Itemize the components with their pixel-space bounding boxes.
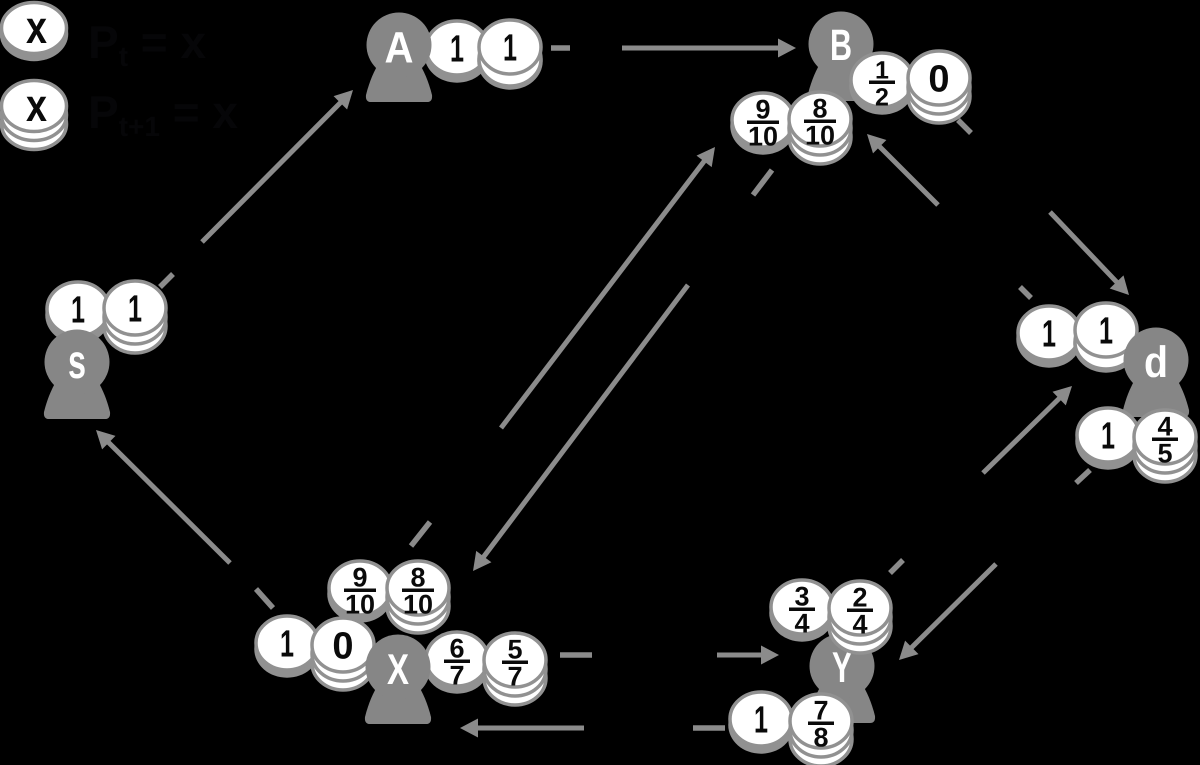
svg-text:8: 8 — [813, 723, 828, 753]
svg-text:9: 9 — [755, 95, 770, 125]
svg-text:1: 1 — [1099, 311, 1113, 353]
svg-text:1: 1 — [128, 289, 142, 331]
svg-text:0: 0 — [332, 626, 353, 668]
svg-text:0: 0 — [928, 59, 949, 101]
svg-text:s: s — [68, 336, 86, 389]
svg-text:x: x — [26, 79, 47, 131]
svg-text:5: 5 — [1157, 439, 1172, 469]
svg-text:X: X — [387, 646, 409, 694]
svg-text:5: 5 — [507, 635, 522, 665]
svg-text:4: 4 — [794, 609, 809, 639]
svg-text:1: 1 — [875, 57, 889, 85]
svg-text:7: 7 — [813, 696, 828, 726]
svg-text:Pt = x: Pt = x — [88, 16, 206, 72]
svg-text:8: 8 — [410, 563, 425, 593]
svg-text:3: 3 — [794, 582, 809, 612]
svg-text:1: 1 — [450, 29, 464, 71]
svg-text:4: 4 — [1157, 412, 1172, 442]
svg-text:x: x — [26, 1, 47, 53]
svg-text:1: 1 — [280, 624, 294, 666]
svg-text:d: d — [1144, 338, 1168, 387]
svg-text:B: B — [830, 21, 852, 70]
svg-text:1: 1 — [503, 28, 517, 70]
svg-text:10: 10 — [748, 122, 778, 152]
svg-text:2: 2 — [875, 84, 889, 112]
svg-text:A: A — [385, 24, 414, 73]
svg-text:10: 10 — [345, 590, 375, 620]
svg-text:9: 9 — [352, 563, 367, 593]
svg-text:8: 8 — [812, 94, 827, 124]
svg-text:1: 1 — [1042, 314, 1056, 356]
svg-text:7: 7 — [449, 661, 464, 691]
svg-text:1: 1 — [1101, 416, 1115, 458]
svg-text:1: 1 — [71, 290, 85, 332]
svg-text:Pt+1 = x: Pt+1 = x — [88, 86, 238, 142]
svg-text:10: 10 — [403, 590, 433, 620]
svg-text:1: 1 — [754, 700, 768, 742]
svg-text:10: 10 — [805, 121, 835, 151]
svg-text:6: 6 — [449, 634, 464, 664]
svg-text:4: 4 — [852, 610, 867, 640]
svg-text:7: 7 — [507, 662, 522, 692]
svg-text:2: 2 — [852, 583, 867, 613]
